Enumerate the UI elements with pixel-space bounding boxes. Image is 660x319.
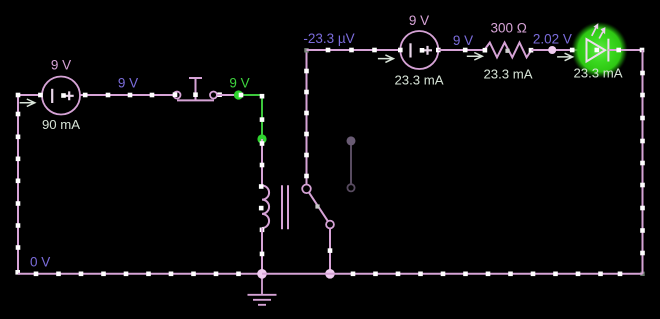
LED D1 glow <box>571 22 628 79</box>
current direction arrow (left rail) <box>20 99 35 107</box>
svg-text:23.3 mA: 23.3 mA <box>394 73 443 88</box>
relay RY1 coil L1 <box>262 186 269 229</box>
current label 23.3 mA of R1 <box>483 67 532 82</box>
node voltage label -23.3 uV <box>303 31 354 46</box>
svg-text:9 V: 9 V <box>118 76 138 91</box>
relay RY1 contact (NO, engaged) <box>302 185 311 194</box>
svg-text:23.3 mA: 23.3 mA <box>573 66 622 81</box>
wire: coil L1 bottom to ground junction <box>260 228 265 274</box>
current direction arrow (before R1) <box>467 53 483 61</box>
LED D1 symbol (triangle + cathode bar) <box>587 39 609 62</box>
corner dot at (306.5,50) (dim) <box>304 48 308 52</box>
node voltage label 2.02 V <box>533 32 572 47</box>
node N2 post (green) <box>257 134 266 143</box>
current dots at switch S1 <box>173 92 222 97</box>
corner dot bottom-left <box>15 270 20 275</box>
battery V1 terminal dots <box>38 93 87 98</box>
current direction arrow (before D1) <box>557 53 573 61</box>
node voltage label 9 V (blue, between V1 and S1) <box>118 76 138 91</box>
svg-text:90 mA: 90 mA <box>42 117 80 132</box>
svg-text:9 V: 9 V <box>409 13 429 28</box>
battery V2 terminal dots <box>398 48 441 53</box>
wire: corner to battery V2 <box>307 48 401 53</box>
wire: resistor R1 to LED D1 <box>532 49 587 51</box>
corner dot top-left <box>16 93 21 98</box>
node voltage label 9 V (green, selected) <box>229 75 249 90</box>
node voltage label 0 V <box>30 255 50 270</box>
resistor R1 300 ohm <box>484 43 531 58</box>
wire (selected, green): node N1 to relay coil top <box>239 95 263 139</box>
bottom-left wire <box>18 272 262 277</box>
node post dot (2.02V node) <box>548 46 556 54</box>
node voltage label 9 V (blue, V2-R1) <box>453 33 473 48</box>
svg-text:300 Ω: 300 Ω <box>491 20 527 35</box>
svg-text:0 V: 0 V <box>30 255 50 270</box>
svg-text:-23.3 µV: -23.3 µV <box>303 31 354 46</box>
right rail wire (vertical) <box>640 50 645 274</box>
relay RY1 armature <box>309 192 328 221</box>
relay RY1 core bars <box>282 185 288 229</box>
svg-text:23.3 mA: 23.3 mA <box>483 67 532 82</box>
value label 9 V of battery V1 <box>51 58 71 73</box>
bottom-right rail wire <box>330 272 643 277</box>
ground symbol G1 <box>248 274 277 305</box>
svg-text:9 V: 9 V <box>51 58 71 73</box>
value label 300 ohm <box>491 20 527 35</box>
wire: relay common, top-right corner down to relay contact <box>304 50 309 185</box>
current label 90 mA of battery V1 <box>42 117 80 132</box>
corner dot bottom-right (dim) <box>640 272 644 276</box>
wire: relay pivot down to bottom rail <box>328 228 333 273</box>
push switch S1 (closed) <box>174 78 218 100</box>
wire: node N2 down to relay coil L1 <box>260 139 265 186</box>
value label 9 V of battery V2 <box>409 13 429 28</box>
bottom wire between junctions <box>262 273 330 275</box>
svg-text:9 V: 9 V <box>453 33 473 48</box>
current dots on green wire <box>239 93 265 122</box>
junction node dot (coil/ground/bottom rail) <box>257 269 267 279</box>
battery V1 (9V source, left) <box>42 77 80 115</box>
battery V2 (9V source, right) <box>400 31 438 69</box>
node N1 post (green, 9V node) <box>234 90 243 99</box>
relay RY1 pivot post <box>326 221 334 229</box>
LED D1 emission arrows <box>592 23 606 38</box>
wire: battery V1 to push switch S1 <box>80 93 174 98</box>
current label 23.3 mA of battery V2 <box>394 73 443 88</box>
relay RY1 unused contact stub (dark) <box>347 136 356 191</box>
wire: switch S1 to node N1 <box>217 94 239 96</box>
current direction arrow (before V2) <box>378 55 394 63</box>
resistor R1 terminal dots <box>483 48 534 53</box>
wire: battery V2 to resistor R1 <box>438 48 484 53</box>
svg-text:9 V: 9 V <box>229 75 249 90</box>
current dots at LED D1 <box>570 48 599 53</box>
wire: battery V1 left lead to left rail corner <box>18 94 42 96</box>
current label 23.3 mA of LED D1 <box>573 66 622 81</box>
left rail wire (vertical) <box>16 95 21 274</box>
wire: LED D1 to top-right corner <box>608 48 644 53</box>
svg-text:2.02 V: 2.02 V <box>533 32 572 47</box>
junction node dot (relay/bottom rail) <box>325 269 335 279</box>
current dots on coil L1 <box>259 184 264 232</box>
